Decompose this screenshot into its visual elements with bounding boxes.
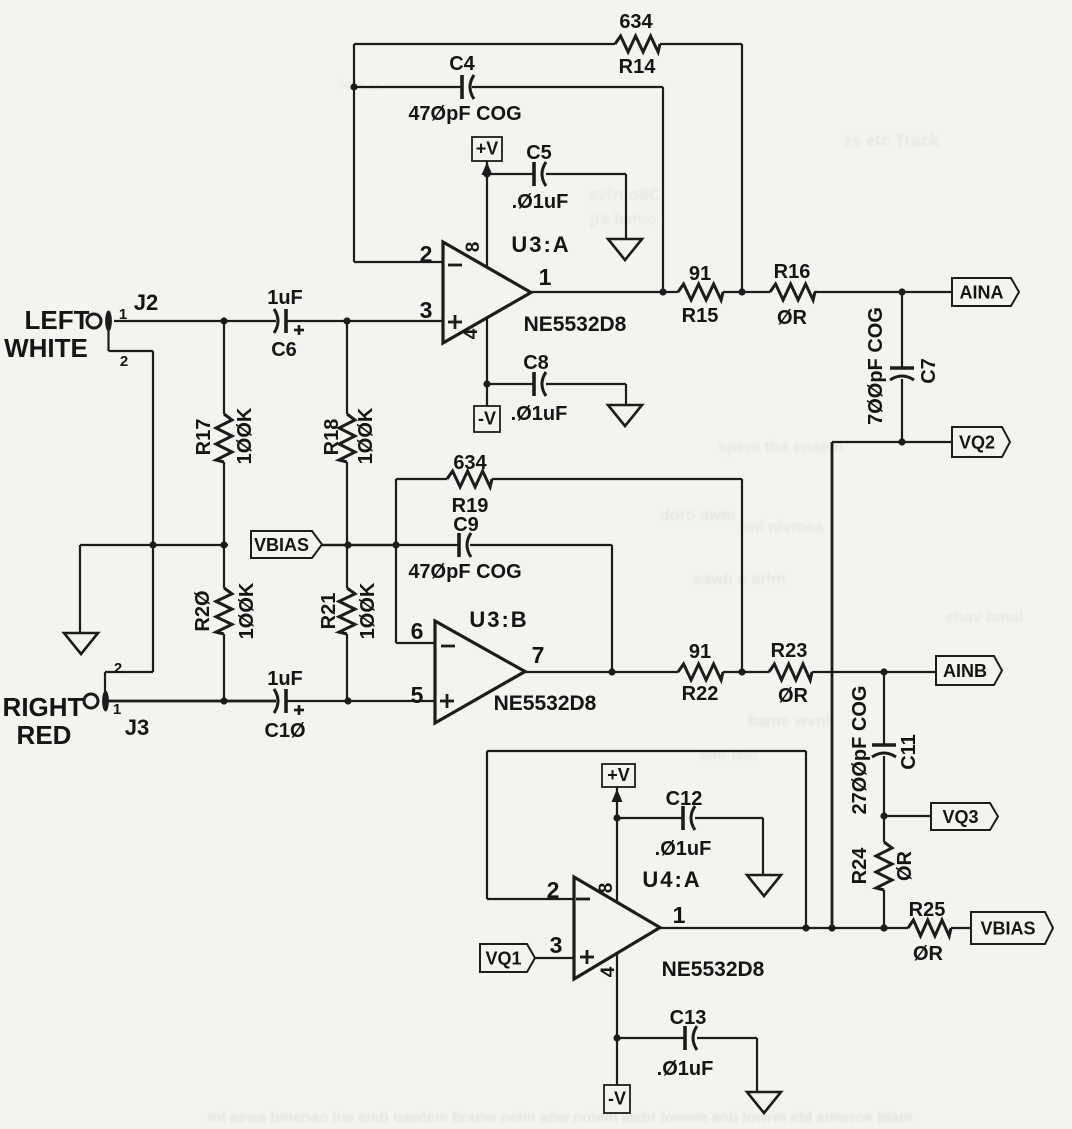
svg-text:J2: J2 bbox=[134, 290, 158, 315]
svg-text:634: 634 bbox=[453, 452, 487, 474]
svg-text:VBIAS: VBIAS bbox=[254, 535, 309, 555]
svg-text:R24: R24 bbox=[849, 847, 871, 885]
svg-text:.Ø1uF: .Ø1uF bbox=[655, 838, 712, 860]
svg-text:NE5532D8: NE5532D8 bbox=[524, 313, 627, 336]
svg-text:R22: R22 bbox=[682, 683, 719, 705]
svg-text:VBIAS: VBIAS bbox=[980, 919, 1035, 939]
svg-text:R16: R16 bbox=[774, 261, 811, 283]
svg-text:VQ1: VQ1 bbox=[485, 949, 521, 969]
svg-text:ØR: ØR bbox=[913, 943, 944, 965]
svg-text:bame wvnl: bame wvnl bbox=[748, 713, 830, 730]
svg-text:VQ2: VQ2 bbox=[959, 433, 995, 453]
svg-text:1ØØK: 1ØØK bbox=[357, 582, 379, 639]
svg-text:R17: R17 bbox=[193, 419, 215, 456]
svg-text:R15: R15 bbox=[682, 305, 719, 327]
svg-text:.Ø1uF: .Ø1uF bbox=[657, 1058, 714, 1080]
svg-text:7: 7 bbox=[532, 642, 545, 668]
svg-text:jra bemo: jra bemo bbox=[589, 211, 657, 228]
svg-text:ml aewa bmenao lrw emb oawlem: ml aewa bmenao lrw emb oawlem branw oelm… bbox=[208, 1109, 912, 1124]
svg-text:doro awm: doro awm bbox=[660, 507, 736, 524]
svg-text:bnl nivmea: bnl nivmea bbox=[740, 519, 824, 536]
svg-text:ØR: ØR bbox=[778, 685, 809, 707]
svg-text:avlrt o8C: avlrt o8C bbox=[588, 185, 661, 204]
svg-text:R23: R23 bbox=[771, 640, 808, 662]
svg-text:rs etc Track: rs etc Track bbox=[845, 131, 940, 150]
svg-text:amr ledt: amr ledt bbox=[700, 747, 758, 764]
svg-text:RIGHT: RIGHT bbox=[3, 692, 84, 722]
svg-text:U4:A: U4:A bbox=[642, 867, 701, 892]
svg-text:C11: C11 bbox=[898, 734, 920, 770]
svg-text:1uF: 1uF bbox=[267, 668, 303, 690]
svg-text:2: 2 bbox=[120, 353, 128, 370]
svg-text:U3:A: U3:A bbox=[511, 232, 570, 257]
svg-text:ØR: ØR bbox=[777, 307, 808, 329]
svg-text:R25: R25 bbox=[909, 899, 946, 921]
svg-text:eawb o arlm: eawb o arlm bbox=[693, 571, 785, 588]
svg-text:C4: C4 bbox=[449, 53, 475, 75]
svg-text:NE5532D8: NE5532D8 bbox=[494, 692, 597, 715]
svg-text:melw: melw bbox=[952, 663, 990, 680]
svg-text:NE5532D8: NE5532D8 bbox=[662, 958, 765, 981]
svg-text:1ØØK: 1ØØK bbox=[234, 407, 256, 464]
svg-text:R18: R18 bbox=[321, 419, 343, 456]
svg-text:C13: C13 bbox=[670, 1007, 707, 1029]
svg-text:4: 4 bbox=[461, 328, 482, 339]
svg-text:1ØØK: 1ØØK bbox=[355, 407, 377, 464]
svg-text:8: 8 bbox=[463, 242, 484, 253]
svg-text:3: 3 bbox=[550, 932, 563, 958]
svg-text:spem tba enaem: spem tba enaem bbox=[718, 439, 843, 456]
svg-text:4: 4 bbox=[598, 966, 619, 977]
svg-text:1: 1 bbox=[119, 306, 127, 323]
svg-text:ehav bmal: ehav bmal bbox=[945, 609, 1023, 626]
svg-text:1ØØK: 1ØØK bbox=[236, 582, 258, 639]
svg-text:2: 2 bbox=[547, 877, 560, 903]
svg-text:1uF: 1uF bbox=[267, 287, 303, 309]
svg-text:WHITE: WHITE bbox=[4, 333, 88, 363]
svg-text:47ØpF COG: 47ØpF COG bbox=[408, 103, 521, 125]
svg-text:7ØØpF COG: 7ØØpF COG bbox=[865, 307, 887, 425]
svg-text:.Ø1uF: .Ø1uF bbox=[511, 403, 568, 425]
svg-text:C6: C6 bbox=[271, 339, 297, 361]
svg-text:AINA: AINA bbox=[960, 283, 1004, 303]
svg-text:ØR: ØR bbox=[894, 850, 916, 881]
svg-text:5: 5 bbox=[411, 682, 424, 708]
svg-text:RED: RED bbox=[17, 720, 72, 750]
svg-text:1: 1 bbox=[113, 701, 121, 718]
svg-text:.Ø1uF: .Ø1uF bbox=[512, 191, 569, 213]
svg-text:2: 2 bbox=[420, 241, 433, 267]
svg-text:-V: -V bbox=[608, 1089, 626, 1109]
svg-text:+V: +V bbox=[607, 765, 630, 785]
svg-text:C12: C12 bbox=[666, 788, 703, 810]
svg-text:LEFT: LEFT bbox=[25, 305, 90, 335]
svg-text:3: 3 bbox=[420, 297, 433, 323]
svg-text:R14: R14 bbox=[619, 56, 657, 78]
svg-text:634: 634 bbox=[619, 11, 653, 33]
svg-text:91: 91 bbox=[689, 263, 711, 285]
svg-text:C7: C7 bbox=[918, 358, 940, 384]
svg-text:U3:B: U3:B bbox=[469, 607, 528, 632]
svg-text:C8: C8 bbox=[523, 352, 549, 374]
svg-text:C1Ø: C1Ø bbox=[264, 720, 305, 742]
svg-text:C5: C5 bbox=[526, 142, 552, 164]
svg-text:+V: +V bbox=[476, 139, 499, 159]
svg-text:27ØØpF COG: 27ØØpF COG bbox=[849, 686, 871, 815]
svg-text:6: 6 bbox=[411, 618, 424, 644]
svg-text:lem ar: lem ar bbox=[340, 77, 382, 93]
svg-text:47ØpF COG: 47ØpF COG bbox=[408, 561, 521, 583]
svg-text:91: 91 bbox=[689, 641, 711, 663]
svg-text:2: 2 bbox=[114, 660, 122, 677]
svg-text:-V: -V bbox=[478, 409, 496, 429]
svg-text:1: 1 bbox=[539, 264, 552, 290]
svg-text:R2Ø: R2Ø bbox=[192, 590, 214, 631]
svg-text:VQ3: VQ3 bbox=[942, 807, 978, 827]
svg-text:8: 8 bbox=[596, 883, 617, 894]
svg-text:R21: R21 bbox=[318, 593, 340, 630]
svg-text:C9: C9 bbox=[453, 514, 479, 536]
svg-text:J3: J3 bbox=[125, 715, 149, 740]
svg-text:1: 1 bbox=[673, 902, 686, 928]
